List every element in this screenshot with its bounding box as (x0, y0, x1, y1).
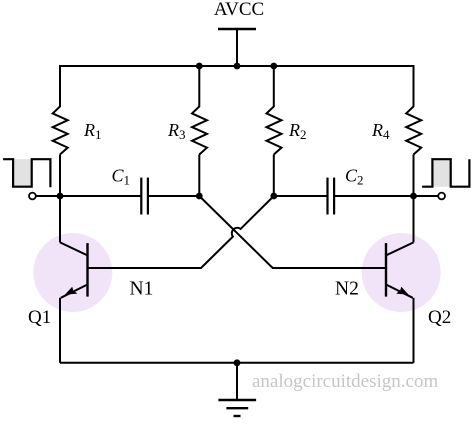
node dot rail-AVCC (234, 63, 241, 70)
C1 left plate (140, 178, 142, 215)
node dot R2-C2 (270, 193, 277, 200)
ground bar 2 (226, 407, 248, 409)
wire R3 to node (198, 155, 200, 197)
svg-text:C2: C2 (345, 166, 364, 188)
wire node R2 to C2 (274, 195, 328, 197)
node dot rail-R3 (196, 63, 203, 70)
wire rail to R2 (273, 66, 275, 107)
wire Q1 emitter to bottom rail (59, 298, 61, 363)
AVCC power bar (218, 28, 256, 30)
wire left terminal to C1 (36, 195, 142, 197)
node dot R3-C1 (196, 193, 203, 200)
node dot ground (234, 359, 241, 366)
output waveform shade right (432, 159, 450, 187)
node dot rail-R2 (270, 63, 277, 70)
Q1 emitter lead (61, 285, 88, 298)
wire right node to terminal (414, 195, 439, 197)
svg-text:N2: N2 (335, 279, 359, 300)
wire R2 to node (273, 155, 275, 197)
capacitor C1 (141, 178, 148, 215)
wire C2 to node right (334, 195, 413, 197)
svg-text:R3: R3 (167, 120, 186, 142)
svg-text:AVCC: AVCC (214, 0, 264, 20)
wire C1 to node N-R3 (148, 195, 199, 197)
wire bottom rail (60, 362, 414, 364)
resistor R1 (53, 107, 68, 155)
output terminal right (438, 193, 445, 200)
resistor R2 (267, 107, 282, 155)
Q2 emitter arrow (396, 287, 409, 295)
ground (218, 363, 256, 416)
wire R4 to node (413, 155, 415, 197)
waveform icon left (3, 159, 50, 187)
svg-text:Q2: Q2 (428, 307, 451, 328)
node dot base-left (57, 193, 64, 200)
wire cross-couple with hop (R2 node to Q1 base) (88, 196, 274, 268)
ground bar 1 (218, 399, 256, 401)
svg-text:R1: R1 (83, 120, 102, 142)
svg-text:C1: C1 (112, 166, 131, 188)
C2 left plate (326, 178, 328, 215)
Q1 base bar (86, 243, 88, 297)
wire rail to R1 (59, 65, 61, 107)
C1 right plate (147, 178, 149, 215)
Q1 collector lead (60, 242, 88, 255)
capacitor C2 (328, 178, 335, 215)
wire Q1 collector (59, 196, 61, 242)
wire AVCC to top rail (236, 29, 238, 66)
C2 right plate (333, 178, 335, 215)
waveform icon right (422, 159, 469, 187)
svg-text:R2: R2 (288, 120, 307, 142)
ground bar 3 (234, 415, 241, 417)
Q2 base bar (385, 243, 387, 297)
wire top rail (60, 65, 414, 67)
resistor R4 (406, 107, 421, 155)
svg-text:analogcircuitdesign.com: analogcircuitdesign.com (252, 371, 438, 392)
wire rail to R4 (413, 65, 415, 107)
Q2 emitter lead (386, 285, 413, 298)
transistor Q1 (60, 196, 88, 363)
svg-text:N1: N1 (130, 279, 154, 300)
input terminal left (29, 193, 36, 200)
Q2 collector lead (386, 242, 414, 255)
wire rail to R3 (198, 66, 200, 107)
wire Q2 emitter to bottom rail (413, 298, 415, 363)
Q1 emitter arrow (65, 287, 78, 295)
wire Q2 collector (413, 196, 415, 242)
transistor Q2 (386, 196, 414, 363)
svg-text:R4: R4 (371, 120, 390, 142)
input waveform shade left (13, 159, 32, 187)
svg-text:Q1: Q1 (28, 307, 51, 328)
transistor Q2 highlight circle (362, 233, 441, 312)
wire cross-couple straight (R3 node to Q2 base) (199, 196, 386, 268)
wire R1 to node (59, 155, 61, 197)
wire ground stem (236, 363, 238, 400)
node dot collector-right (410, 193, 417, 200)
resistor R3 (192, 107, 207, 155)
transistor Q1 highlight circle (33, 233, 112, 312)
